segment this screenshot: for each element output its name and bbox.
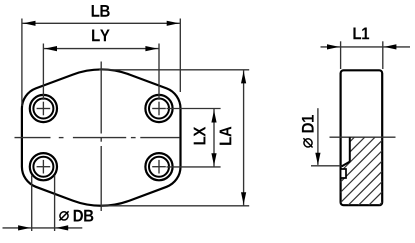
side view body — [341, 70, 383, 205]
bore wall — [349, 137, 351, 161]
dimension LY — [43, 44, 159, 100]
bolt hole bottom-right counterbore — [145, 153, 172, 180]
bore edge extension — [311, 165, 341, 167]
dimension D1 — [317, 108, 319, 165]
dimension L1 — [321, 41, 411, 69]
bolt hole top-right counterbore — [145, 95, 172, 122]
flange outline — [22, 69, 181, 205]
bolt hole bottom-right bore — [149, 157, 169, 177]
side view centerline — [330, 136, 396, 138]
o-ring groove — [341, 169, 346, 178]
dimension LB — [22, 19, 180, 107]
dimension DB — [3, 176, 83, 232]
vertical centerline (front view) — [100, 62, 102, 212]
bolt hole top-left counterbore — [30, 95, 57, 122]
horizontal centerline (front view) — [15, 137, 180, 139]
hole center crosses — [37, 102, 166, 174]
bolt hole top-right bore — [149, 99, 169, 119]
bolt hole bottom-left counterbore — [30, 153, 57, 180]
dimension LX — [167, 109, 221, 167]
dimension LA — [99, 70, 249, 206]
bolt hole top-left bore — [33, 99, 53, 119]
bolt hole bottom-left bore — [33, 157, 53, 177]
bore chamfer — [342, 162, 350, 167]
